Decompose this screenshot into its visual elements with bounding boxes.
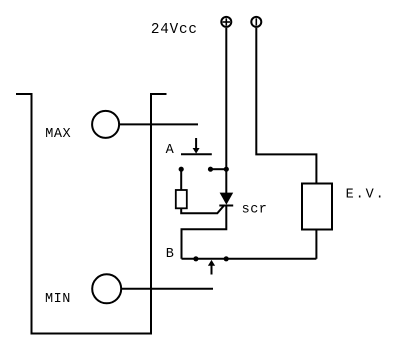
svg-text:24Vcc: 24Vcc	[151, 22, 198, 38]
wire MIN sensor to right	[121, 288, 213, 290]
wire - terminal down and right to E.V. top	[256, 28, 316, 184]
E.V. electrovalve coil	[302, 184, 332, 230]
junction dot B left	[193, 256, 198, 261]
node B horizontal line	[182, 258, 317, 260]
node A contact line	[181, 153, 212, 155]
svg-text:A: A	[166, 143, 175, 158]
svg-text:scr: scr	[242, 203, 268, 218]
wire SCR cathode down-left to node B	[182, 206, 227, 259]
svg-text:B: B	[166, 247, 174, 262]
tank (open vessel with outward lips)	[16, 94, 167, 334]
terminal - (negative supply)	[251, 17, 261, 27]
MAX electrode sensor circle	[92, 111, 119, 138]
wire E.V. bottom to node B line	[315, 230, 317, 259]
terminal + (positive supply)	[221, 17, 231, 27]
svg-text:MAX: MAX	[45, 127, 71, 142]
wire resistor bottom to SCR gate	[181, 206, 224, 214]
wire MAX sensor to right	[119, 123, 198, 125]
junction stub to gate branch (two dots)	[208, 167, 229, 172]
wire + terminal down to SCR anode	[225, 28, 227, 194]
arrow into node A (downward)	[193, 138, 200, 154]
node dot above resistor	[179, 167, 184, 172]
SCR cathode bar	[219, 205, 233, 207]
MIN electrode sensor circle	[92, 274, 121, 303]
SCR thyristor (anode triangle)	[220, 193, 234, 205]
junction dot B right	[224, 256, 229, 261]
wire node to resistor top	[180, 169, 182, 190]
svg-text:E.V.: E.V.	[346, 188, 386, 203]
resistor (gate resistor)	[176, 190, 187, 208]
svg-text:MIN: MIN	[45, 292, 71, 307]
arrow into node B (upward)	[208, 260, 215, 275]
